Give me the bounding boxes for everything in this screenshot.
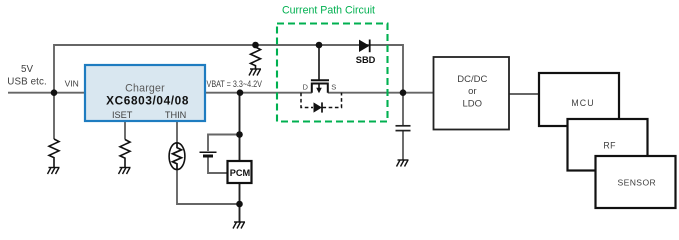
- ground below C1: [397, 160, 409, 167]
- svg-text:DC/DC: DC/DC: [457, 74, 487, 85]
- wire: VBAT wire from charger to MOSFET drain: [205, 92, 312, 94]
- node: battery plus junction dot: [236, 131, 243, 138]
- diode D1 SBD on top rail: [359, 40, 370, 53]
- RF box: [568, 119, 648, 171]
- resistor R2 (ISET): [120, 140, 130, 168]
- body diode dashed loop: [301, 93, 342, 108]
- svg-text:5V: 5V: [21, 64, 33, 75]
- node: top rail dot at resistor R3: [252, 42, 259, 49]
- node: top rail dot at gate line: [316, 42, 323, 49]
- battery cell BT1: [200, 152, 217, 156]
- ground below R3: [249, 69, 261, 76]
- svg-text:S: S: [331, 82, 336, 91]
- ground below R1: [48, 168, 60, 175]
- svg-text:RF: RF: [603, 141, 616, 151]
- svg-text:MCU: MCU: [571, 98, 594, 108]
- svg-text:VBAT = 3.3~4.2V: VBAT = 3.3~4.2V: [207, 79, 263, 89]
- wire: USB input feed to VIN pin: [8, 92, 85, 94]
- svg-text:PCM: PCM: [230, 168, 251, 178]
- svg-text:THIN: THIN: [165, 110, 186, 120]
- wire: VBAT node down to PCM: [239, 93, 241, 162]
- svg-text:or: or: [468, 86, 476, 97]
- svg-text:D: D: [303, 82, 309, 91]
- SENSOR box: [596, 156, 676, 208]
- thermistor TH1: [169, 143, 185, 170]
- ground below PCM: [233, 222, 245, 229]
- svg-text:SENSOR: SENSOR: [617, 177, 656, 187]
- ground below R2: [119, 168, 131, 175]
- charger box U1: [85, 65, 205, 121]
- node: VIN junction dot: [51, 89, 58, 96]
- node: VBAT junction dot: [237, 89, 244, 96]
- svg-text:SBD: SBD: [356, 55, 376, 65]
- PCM protection module box: [228, 161, 252, 183]
- label: 5V USB etc.: [7, 64, 47, 88]
- wire: MOSFET gate line from top rail: [318, 45, 320, 80]
- wire: battery branch from node to cell and into PCM: [208, 135, 240, 174]
- svg-text:VIN: VIN: [65, 79, 79, 89]
- transistor Q1 MOSFET gate bar: [311, 79, 329, 81]
- green dashed box: Current Path Circuit: [277, 24, 388, 122]
- svg-text:ISET: ISET: [112, 110, 133, 120]
- wire: VIN junction down to resistor R1: [53, 93, 55, 139]
- MCU box: [539, 73, 619, 126]
- svg-text:Current Path Circuit: Current Path Circuit: [282, 5, 375, 17]
- resistor R1 (USB input pulldown): [49, 139, 59, 167]
- wire: ISET pin down to resistor R2: [124, 121, 126, 140]
- node: output junction dot: [400, 89, 407, 96]
- wire: DC/DC output to MCU: [509, 93, 539, 95]
- node: battery minus junction dot: [236, 201, 243, 208]
- wire: MOSFET source to DC/DC input: [328, 92, 434, 94]
- svg-text:LDO: LDO: [463, 98, 483, 109]
- transistor Q1 substrate arrow: [316, 84, 322, 93]
- transistor Q1 MOSFET channel and D/S stubs: [312, 84, 328, 93]
- wire: thermistor down and right to battery minus node: [177, 170, 240, 205]
- wire: THIN pin down to thermistor: [176, 121, 178, 143]
- svg-text:USB etc.: USB etc.: [7, 77, 47, 88]
- resistor R3 (top rail to ground): [251, 47, 261, 69]
- capacitor C1: [396, 126, 411, 131]
- body diode symbol: [314, 102, 323, 112]
- wire: PCM to bottom ground node: [239, 183, 241, 222]
- DC/DC or LDO box: [434, 57, 510, 130]
- wire: output node down to capacitor C1: [402, 93, 404, 160]
- svg-text:XC6803/04/08: XC6803/04/08: [106, 93, 189, 107]
- wire: top rail from VIN junction up, across, and down to output node: [54, 45, 403, 93]
